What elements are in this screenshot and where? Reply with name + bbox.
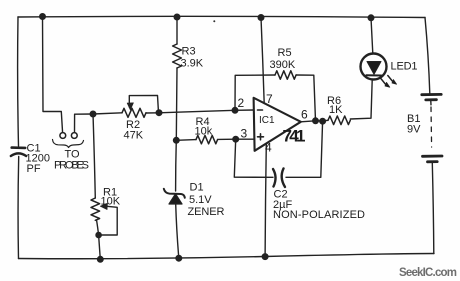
resistor R5 — [275, 71, 296, 79]
svg-text:D1: D1 — [190, 182, 204, 194]
svg-text:NON-POLARIZED: NON-POLARIZED — [273, 209, 365, 221]
resistor R4 — [196, 135, 218, 143]
svg-text:47K: 47K — [124, 130, 144, 142]
resistor R3 vertical line top — [176, 17, 178, 44]
node top-probes junction — [40, 14, 46, 20]
wire node to R2 — [93, 113, 122, 114]
op-amp pin4 wire — [265, 144, 266, 257]
wire R5 right/down — [296, 75, 315, 121]
LED1 light arrow 2 — [388, 76, 394, 83]
op-amp plus sign — [258, 134, 264, 140]
op-amp pin7 wire — [261, 18, 264, 104]
potentiometer R1 — [93, 114, 95, 198]
LED1 wire from top rail — [371, 18, 373, 54]
probe terminal right — [71, 133, 77, 139]
wire R2 to opamp pin2 — [159, 110, 254, 113]
battery B1 top cell short plate — [426, 98, 437, 101]
zener diode D1 — [169, 194, 182, 204]
LED1 circle — [361, 54, 387, 80]
LED1 triangle — [367, 62, 381, 75]
svg-text:PF: PF — [27, 163, 41, 175]
resistor R3 — [173, 44, 182, 68]
svg-text:3.9K: 3.9K — [181, 58, 204, 70]
svg-text:SeekIC.com: SeekIC.com — [399, 267, 457, 279]
node pin4 bottom junction — [262, 254, 268, 260]
capacitor C2 branch from pin3 — [234, 139, 273, 177]
wire R4 left — [176, 139, 196, 142]
wire top rail — [18, 16, 425, 17]
battery dashed middle — [430, 107, 433, 147]
wire right rail lower (battery to bottom rail) — [432, 163, 434, 254]
R2 wiper loop rectangle — [129, 95, 158, 112]
op-amp U1 triangle — [254, 98, 301, 151]
R2 wiper arrowhead — [127, 103, 133, 110]
wire bottom rail — [19, 254, 435, 259]
svg-text:10K: 10K — [101, 196, 121, 208]
ink speck — [213, 20, 215, 22]
capacitor C2 right plate — [282, 169, 285, 188]
battery B1 bottom cell long plate — [423, 155, 443, 158]
svg-text:1K: 1K — [329, 104, 343, 116]
wire probes right branch — [75, 114, 94, 133]
node probes/R2/R1 junction — [90, 111, 96, 117]
capacitor C2 right branch to output — [286, 121, 323, 177]
node pin3/C2 junction — [233, 136, 239, 142]
svg-text:R3: R3 — [182, 46, 196, 58]
node top-LED junction — [368, 15, 374, 21]
svg-text:6: 6 — [301, 108, 308, 122]
node output/R5 junction — [313, 118, 319, 124]
svg-text:7: 7 — [266, 92, 273, 106]
svg-text:390K: 390K — [270, 59, 296, 71]
svg-text:10k: 10k — [195, 126, 213, 138]
wire left rail lower (C1 to bottom rail) — [17, 157, 20, 259]
node R2 right junction — [156, 110, 162, 116]
potentiometer R2 — [122, 108, 146, 117]
node pin2/R5 junction — [232, 108, 238, 114]
battery B1 top cell long plate — [422, 93, 441, 96]
node output/C2 junction — [320, 118, 326, 124]
resistor R5 feedback loop left/top — [235, 75, 275, 110]
svg-text:PROBES: PROBES — [54, 160, 89, 172]
svg-text:741: 741 — [283, 127, 306, 146]
wire left rail upper (top rail to C1) — [17, 17, 20, 146]
wire R4 to pin3 — [218, 138, 254, 140]
svg-text:3: 3 — [241, 127, 248, 141]
probe terminal left — [60, 133, 66, 139]
R1 wiper arrowhead — [100, 203, 107, 209]
svg-text:ZENER: ZENER — [188, 206, 225, 218]
svg-text:9V: 9V — [407, 124, 421, 136]
svg-text:4: 4 — [265, 141, 272, 155]
svg-text:LED1: LED1 — [391, 61, 418, 73]
R1 wiper loop — [99, 206, 118, 235]
probes underbrace — [53, 140, 84, 148]
wire opamp output — [301, 120, 328, 122]
node R1 bottom junction — [98, 257, 104, 263]
battery stub — [430, 101, 432, 105]
wire R3 to R4 node and down to zener — [175, 68, 178, 140]
LED1 light arrow 1 — [380, 78, 387, 86]
LED1 cathode bar — [366, 74, 381, 76]
node zener bottom junction — [176, 255, 182, 261]
svg-text:R5: R5 — [278, 47, 292, 59]
resistor R6 — [328, 116, 350, 125]
capacitor C1 — [12, 146, 26, 149]
svg-text:IC1: IC1 — [259, 115, 275, 126]
battery B1 bottom cell short plate — [428, 160, 438, 163]
wire R6 to LED — [350, 80, 372, 119]
capacitor C2 left plate — [273, 169, 276, 187]
node top-R3 junction — [174, 14, 180, 20]
svg-text:2: 2 — [238, 96, 245, 110]
node R4 left junction — [174, 138, 180, 144]
wire probes left branch — [43, 17, 63, 133]
svg-text:5.1V: 5.1V — [189, 194, 212, 206]
wire right rail upper (top rail to battery) — [425, 18, 430, 94]
op-amp minus sign — [258, 109, 263, 111]
node top-pin7 junction — [258, 15, 264, 21]
node R1 loop junction — [96, 232, 101, 237]
